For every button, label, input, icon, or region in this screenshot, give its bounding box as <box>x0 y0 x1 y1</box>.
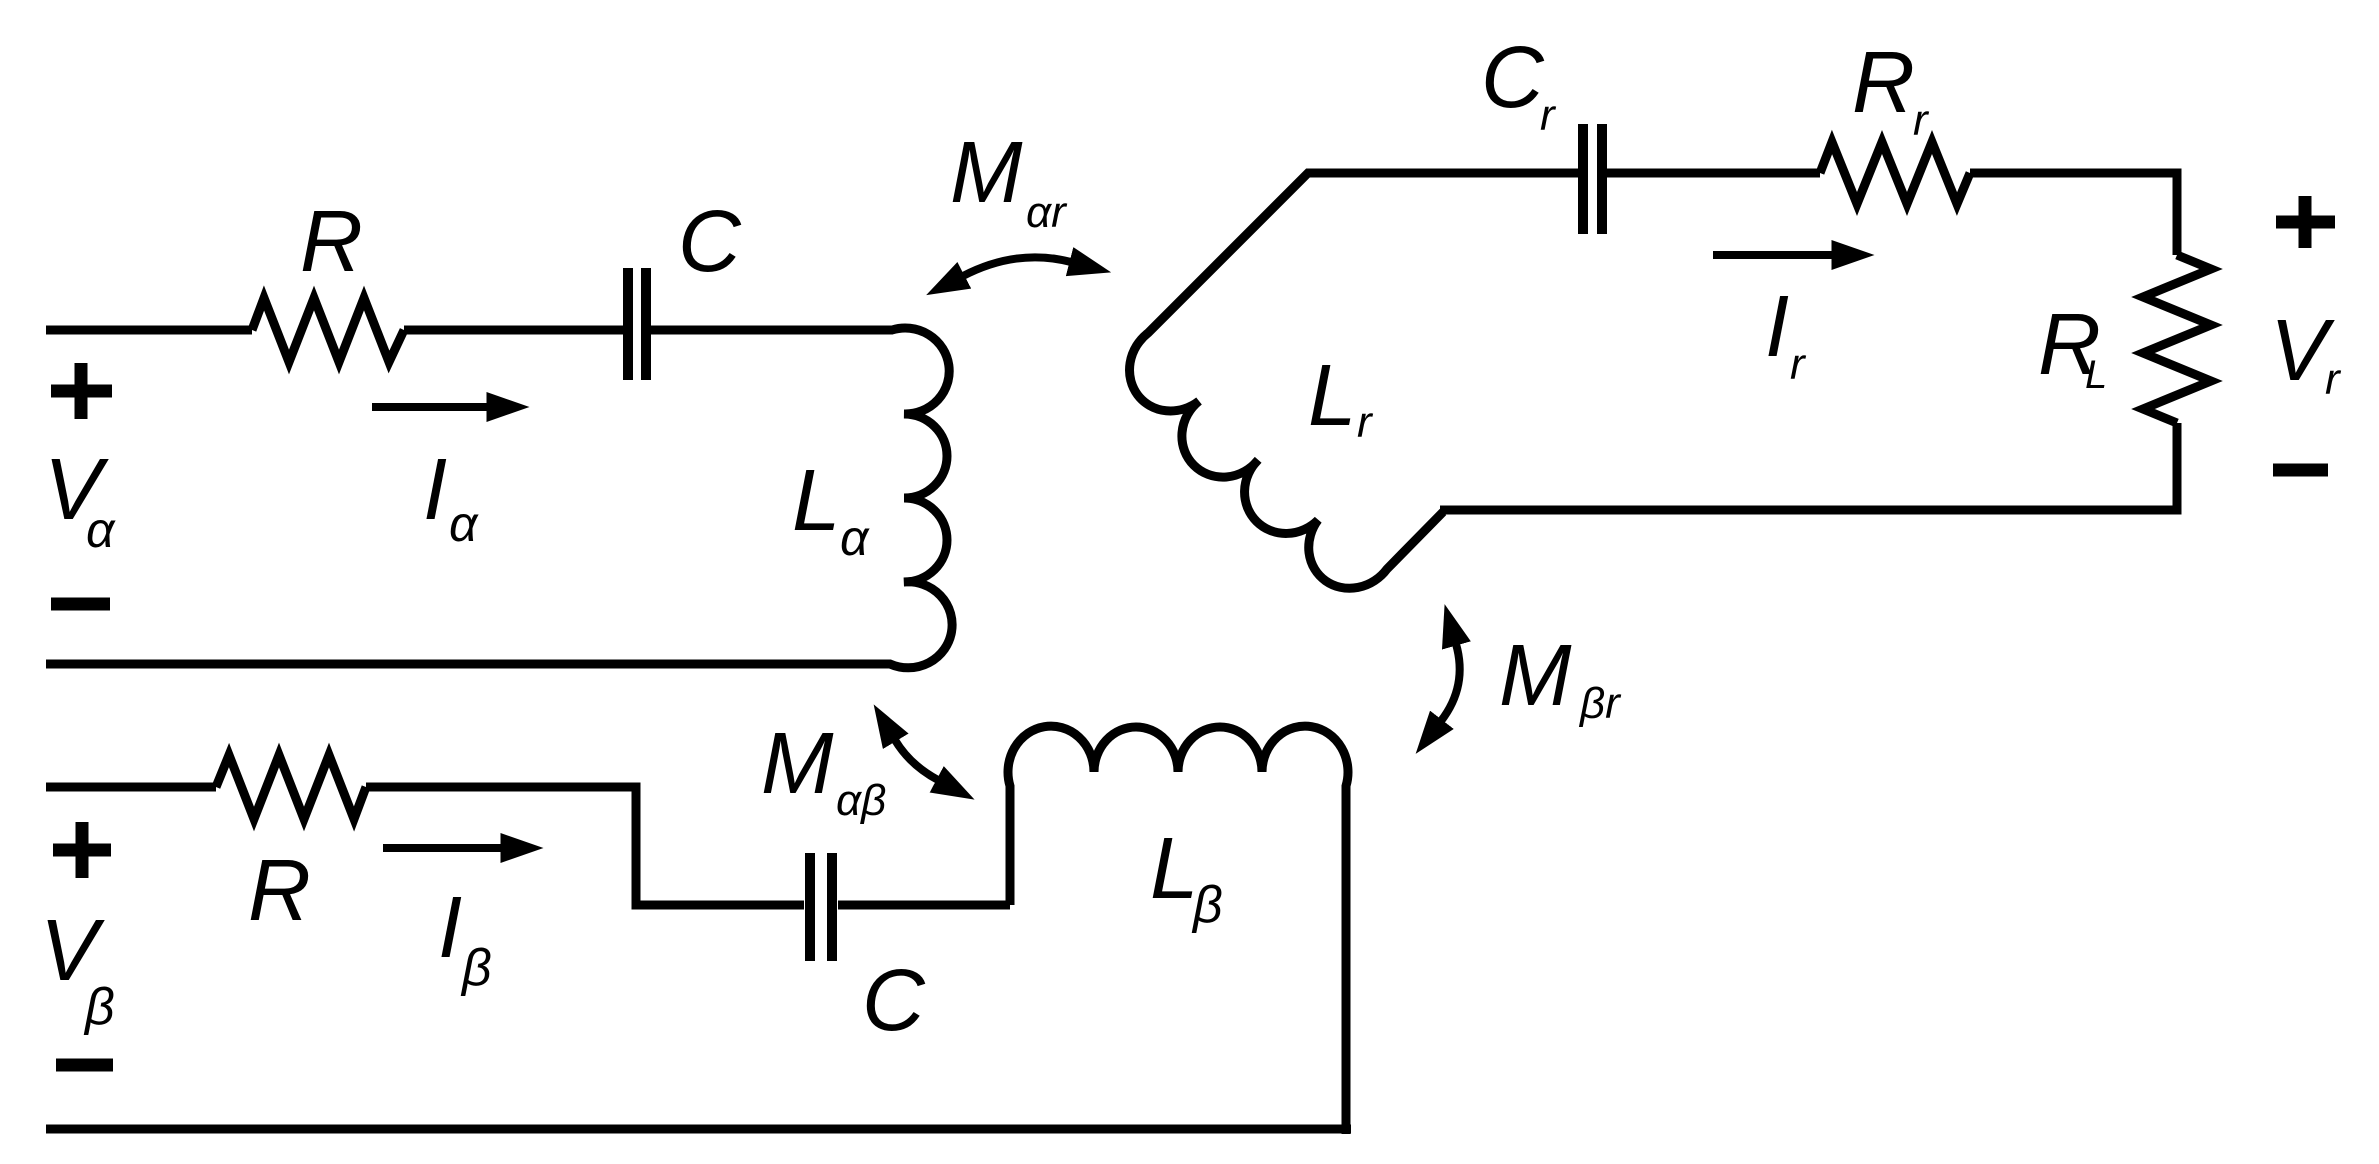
svg-text:L: L <box>1308 347 1356 444</box>
svg-text:M: M <box>761 715 834 812</box>
svg-text:R: R <box>1852 34 1915 131</box>
plus sign of V_alpha <box>51 363 112 419</box>
capacitor C (beta) <box>810 853 832 961</box>
label L_alpha <box>792 452 870 566</box>
svg-text:L: L <box>1150 820 1198 917</box>
svg-text:I: I <box>438 879 462 976</box>
plus sign of V_beta <box>53 822 111 878</box>
svg-text:r: r <box>1357 398 1374 447</box>
inductor L_r with feed wires <box>1130 173 1578 588</box>
svg-text:C: C <box>1481 29 1545 126</box>
resistor R (alpha branch) <box>252 298 404 362</box>
wire beta from capacitor to L_beta <box>838 901 1010 910</box>
wire beta bottom return <box>46 1125 1351 1134</box>
label R_L <box>2038 296 2107 397</box>
resistor R (beta branch) <box>216 755 366 819</box>
label M_beta_r <box>1499 627 1622 728</box>
resistor R_L load <box>2143 255 2211 423</box>
svg-text:α: α <box>86 502 116 558</box>
mutual coupling arrow M_alpha_r <box>963 257 1071 276</box>
svg-text:αr: αr <box>1026 188 1068 237</box>
svg-text:r: r <box>1540 91 1557 140</box>
svg-text:L: L <box>792 452 840 549</box>
svg-text:αβ: αβ <box>836 776 886 825</box>
mutual coupling arrow M_alpha_beta <box>895 740 938 780</box>
minus sign of V_beta <box>56 1059 113 1072</box>
wire beta after R with step down <box>366 787 804 905</box>
svg-text:βr: βr <box>1578 679 1622 728</box>
mutual coupling arrow M_beta_r <box>1441 644 1460 721</box>
svg-text:L: L <box>2085 353 2107 397</box>
inductor L_beta with step up <box>1008 726 1348 1134</box>
svg-text:r: r <box>1913 96 1930 145</box>
svg-text:R: R <box>300 193 363 290</box>
plus sign of V_r <box>2276 196 2335 248</box>
label C_r <box>1481 29 1557 140</box>
wire r-circuit top right with corner <box>1970 173 2177 255</box>
label L_r <box>1308 347 1374 447</box>
current arrow I_r <box>1713 251 1833 259</box>
inductor L_alpha <box>46 328 952 668</box>
svg-text:I: I <box>1765 278 1789 375</box>
svg-text:M: M <box>950 124 1023 221</box>
svg-text:r: r <box>2325 355 2342 404</box>
wire alpha top left segment <box>46 326 252 335</box>
label M_alpha_beta <box>761 715 886 825</box>
label L_beta <box>1150 820 1223 934</box>
minus sign of V_r <box>2273 464 2328 477</box>
svg-text:r: r <box>1790 340 1807 389</box>
minus sign of V_alpha <box>51 598 110 611</box>
svg-text:β: β <box>460 939 492 997</box>
capacitor C_r <box>1583 124 1602 234</box>
label V_r <box>2270 302 2342 404</box>
label V_alpha <box>44 441 116 558</box>
svg-text:α: α <box>449 496 479 552</box>
svg-text:R: R <box>248 842 311 939</box>
wire beta top left segment <box>46 783 216 792</box>
current arrow I_alpha <box>372 403 488 411</box>
wire r-circuit bottom return <box>1440 423 2177 510</box>
wire r-circuit top middle segment <box>1607 169 1820 178</box>
svg-text:I: I <box>423 441 447 538</box>
resistor R_r <box>1820 142 1970 204</box>
label I_alpha <box>423 441 479 552</box>
wire alpha between R and C <box>404 326 623 335</box>
capacitor C (alpha) <box>628 268 646 380</box>
svg-text:M: M <box>1499 627 1572 724</box>
label I_r <box>1765 278 1807 389</box>
svg-text:C: C <box>862 952 926 1049</box>
current arrow I_beta <box>383 844 502 852</box>
svg-text:α: α <box>840 510 870 566</box>
wire alpha between C and L_alpha <box>651 326 880 335</box>
svg-text:β: β <box>1191 876 1223 934</box>
label R_r <box>1852 34 1930 145</box>
label M_alpha_r <box>950 124 1068 237</box>
svg-text:β: β <box>83 978 115 1036</box>
label V_beta <box>40 902 115 1036</box>
svg-text:C: C <box>678 193 742 290</box>
label I_beta <box>438 879 492 997</box>
